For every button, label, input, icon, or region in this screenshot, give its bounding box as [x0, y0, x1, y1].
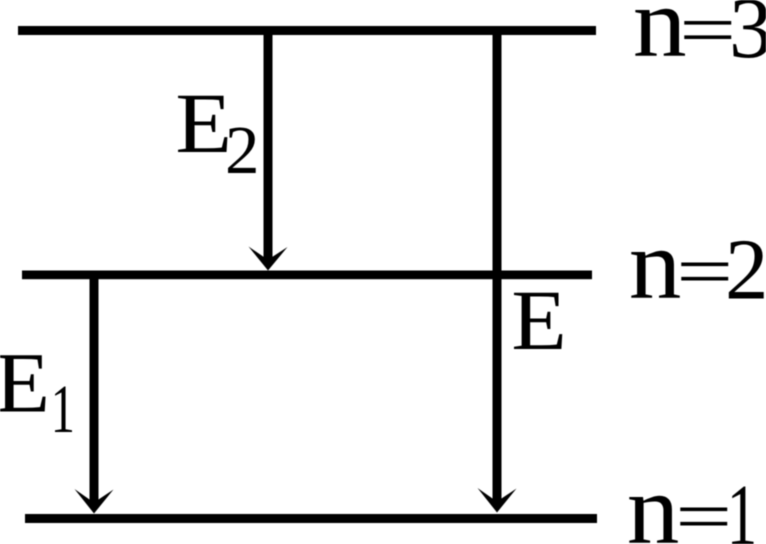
transition arrow E (n=3 to n=1): shaft: [493, 30, 502, 499]
label n=2: equals sign: [676, 232, 733, 312]
label E: letter E: [511, 273, 566, 368]
transition arrow E1 (n=2 to n=1): shaft: [90, 275, 99, 500]
label n=3: letter n: [633, 0, 687, 78]
label n=1: equals sign: [675, 477, 732, 544]
label n=2: letter n: [629, 210, 682, 320]
svg-text:=: =: [675, 477, 732, 544]
svg-text:1: 1: [727, 468, 757, 544]
svg-text:=: =: [679, 0, 736, 70]
label n=3: digit 3: [729, 0, 766, 76]
label n=3: equals sign: [679, 0, 736, 70]
svg-text:E: E: [511, 273, 566, 368]
energy level line n=3: [18, 26, 596, 35]
transition arrow E2: arrowhead: [249, 247, 288, 271]
svg-text:E: E: [0, 335, 50, 431]
label n=1: digit 1: [727, 468, 757, 544]
label E1: subscript 1: [51, 371, 75, 447]
transition arrow E: arrowhead: [478, 488, 517, 513]
label E1: letter E: [0, 335, 50, 431]
svg-text:n: n: [627, 455, 680, 544]
transition arrow E2 (n=3 to n=2): shaft: [264, 30, 273, 257]
label E2: letter E: [175, 76, 232, 171]
energy level line n=1: [25, 514, 597, 523]
svg-text:2: 2: [725, 221, 766, 318]
energy level line n=2: [22, 271, 592, 280]
svg-text:2: 2: [225, 112, 260, 188]
transition arrow E1: arrowhead: [75, 489, 114, 514]
label E2: subscript 2: [225, 112, 260, 188]
label n=1: letter n: [627, 455, 680, 544]
label n=2: digit 2: [725, 221, 766, 318]
svg-text:1: 1: [51, 371, 75, 447]
svg-text:E: E: [175, 76, 232, 171]
svg-text:3: 3: [729, 0, 766, 76]
svg-text:n: n: [629, 210, 682, 320]
